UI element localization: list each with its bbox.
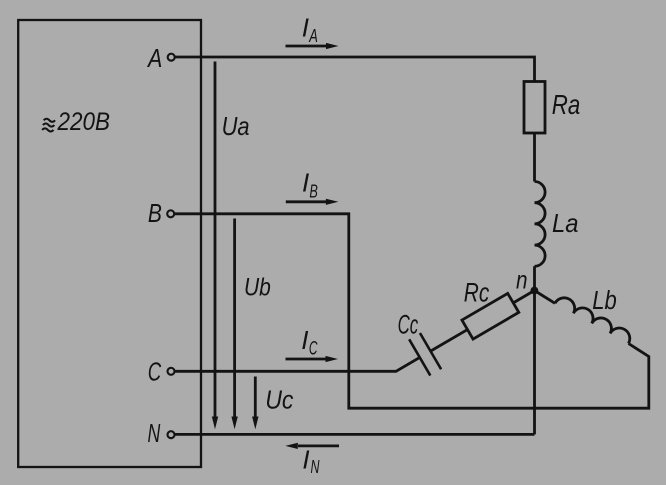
wire node n to Lb start <box>534 291 555 304</box>
svg-text:A: A <box>146 43 162 73</box>
svg-text:A: A <box>309 25 318 46</box>
svg-text:220B: 220B <box>57 108 110 136</box>
svg-text:C: C <box>309 338 318 359</box>
svg-text:Ua: Ua <box>222 111 250 141</box>
arrowhead Uc <box>252 417 258 430</box>
arrowhead IB <box>326 199 339 205</box>
svg-text:C: C <box>148 356 162 386</box>
inductor La <box>535 182 546 267</box>
current arrow IC <box>286 358 328 361</box>
current arrow IA <box>286 45 328 48</box>
svg-text:B: B <box>309 181 318 202</box>
label 220V wave symbol <box>42 119 55 132</box>
svg-text:Rc: Rc <box>464 277 490 307</box>
voltage arrow Ua <box>214 62 217 419</box>
svg-text:Lb: Lb <box>592 287 617 315</box>
svg-text:Ub: Ub <box>244 274 271 302</box>
svg-text:Ra: Ra <box>552 89 581 120</box>
svg-text:Cc: Cc <box>398 309 419 339</box>
current arrow IN <box>298 444 339 447</box>
svg-text:I: I <box>302 445 309 475</box>
arrowhead IN <box>285 443 298 449</box>
resistor Ra <box>524 82 545 134</box>
arrowhead Ub <box>231 417 237 430</box>
inductor Lb <box>555 298 630 344</box>
wire N bus <box>175 433 535 436</box>
wire Cc to Rc <box>431 330 468 352</box>
resistor Rc <box>462 293 519 339</box>
capacitor Cc plates <box>409 333 441 376</box>
svg-text:I: I <box>302 168 309 198</box>
arrowhead IC <box>326 356 339 362</box>
wire phase B: terminal B right, down, along bottom to Lb <box>175 214 649 408</box>
svg-text:N: N <box>148 418 161 448</box>
terminal A <box>168 54 175 61</box>
voltage arrow Uc <box>254 377 257 419</box>
wire La bottom through node n down to N bus <box>533 266 536 434</box>
svg-text:I: I <box>302 13 309 43</box>
wire phase A: terminal A to Ra top <box>175 57 534 82</box>
terminal N <box>168 431 175 438</box>
svg-text:B: B <box>148 198 162 228</box>
arrowhead Ua <box>212 417 218 430</box>
terminal C <box>168 368 175 375</box>
svg-text:La: La <box>552 208 579 238</box>
node n junction dot <box>531 287 539 295</box>
svg-text:N: N <box>311 456 320 477</box>
source box (220V supply) <box>18 20 201 467</box>
svg-text:Uc: Uc <box>265 384 293 414</box>
wire Ra bottom to La top <box>533 133 536 182</box>
terminal B <box>167 210 174 217</box>
wire Rc to node n <box>513 291 534 303</box>
svg-text:n: n <box>516 267 528 295</box>
svg-text:I: I <box>301 325 308 355</box>
arrowhead IA <box>326 43 339 49</box>
voltage arrow Ub <box>233 219 236 419</box>
current arrow IB <box>286 200 327 203</box>
wire phase C: terminal C right then diagonal to Cc plate <box>175 357 420 371</box>
